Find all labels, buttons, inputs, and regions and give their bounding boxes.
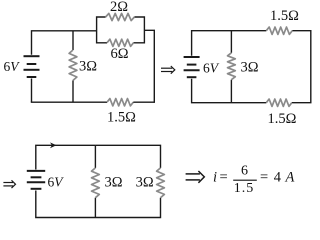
arrow: implies (top middle) (161, 66, 175, 74)
svg-text:=: = (260, 170, 268, 186)
wire: parallel box frame (97, 17, 107, 43)
resistor 3ohm (circuit1 middle) (69, 50, 77, 80)
svg-text:i: i (213, 170, 217, 186)
svg-text:2Ω: 2Ω (110, 0, 128, 15)
wire: circuit2 middle branch (230, 31, 232, 53)
resistor 6ohm (box bottom) (107, 39, 134, 46)
svg-text:A: A (285, 170, 295, 186)
battery V1 (6V) (24, 56, 40, 77)
svg-text:1.5Ω: 1.5Ω (268, 111, 297, 127)
svg-text:1.5: 1.5 (234, 181, 255, 196)
resistor 1.5ohm (circuit2 top) (266, 27, 292, 34)
svg-text:1.5Ω: 1.5Ω (107, 110, 136, 126)
arrow: implies (before formula, large) (186, 171, 205, 183)
resistor 3ohm (circuit3 right) (157, 168, 165, 198)
wire: circuit1 left-bottom (31, 79, 33, 103)
svg-text:3Ω: 3Ω (105, 175, 123, 191)
svg-text:=: = (220, 170, 228, 186)
svg-text:3Ω: 3Ω (136, 175, 154, 191)
svg-text:3Ω: 3Ω (241, 59, 259, 75)
wire: circuit1 middle branch (72, 31, 74, 50)
wire: circuit1 right side (144, 30, 154, 103)
svg-text:4: 4 (274, 170, 282, 186)
svg-text:6V: 6V (203, 61, 220, 76)
resistor 1.5ohm (circuit2 bottom) (266, 99, 292, 106)
battery V2 (6V) (184, 57, 200, 77)
resistor 3ohm (circuit3 middle) (92, 168, 100, 198)
resistor 1.5ohm (circuit1 bottom) (107, 99, 133, 106)
wire: circuit2 outer frame (192, 31, 267, 56)
svg-text:6V: 6V (48, 175, 65, 190)
resistor 2ohm (box top) (106, 13, 135, 20)
resistor 3ohm (circuit2 middle) (228, 53, 236, 80)
svg-text:3Ω: 3Ω (79, 59, 97, 75)
svg-text:1.5Ω: 1.5Ω (270, 8, 299, 24)
current arrow i (circuit3 top wire) (50, 142, 56, 148)
wire: circuit3 outer frame (36, 145, 96, 169)
wire: circuit1 bottom rail (left of R) (31, 101, 107, 103)
wire: circuit1 left-top and top rail (32, 31, 97, 55)
formula: fraction bar (233, 179, 257, 181)
arrow: implies (bottom left) (3, 180, 15, 188)
svg-text:6: 6 (241, 164, 248, 179)
svg-text:6Ω: 6Ω (110, 46, 128, 62)
svg-text:6V: 6V (4, 59, 21, 74)
wire: circuit3 middle branch (94, 145, 96, 168)
wire: circuit1 bottom rail (right of R) (133, 101, 154, 103)
battery V3 (6V) (27, 171, 45, 189)
